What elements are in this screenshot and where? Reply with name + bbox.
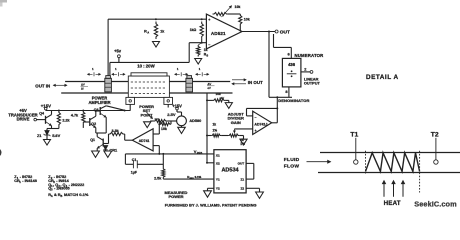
svg-text:DRIVE: DRIVE <box>17 117 30 122</box>
svg-text:1k: 1k <box>213 122 217 126</box>
svg-text:3.3k: 3.3k <box>112 129 120 133</box>
svg-text:Q1: Q1 <box>90 138 95 142</box>
svg-text:10k: 10k <box>244 18 250 22</box>
svg-text:FLOW: FLOW <box>284 163 300 169</box>
svg-text:−: − <box>255 115 257 119</box>
svg-text:1%: 1% <box>213 128 218 132</box>
svg-text:4.7k: 4.7k <box>71 114 79 118</box>
svg-text:X1: X1 <box>216 153 220 157</box>
svg-text:SeekIC.com: SeekIC.com <box>414 200 457 209</box>
svg-text:HEAT: HEAT <box>384 200 401 207</box>
svg-text:Q4: Q4 <box>39 112 44 116</box>
svg-text:Y1: Y1 <box>216 177 220 181</box>
svg-text:- 2N3055: - 2N3055 <box>54 186 70 190</box>
svg-text:A: A <box>147 32 149 35</box>
svg-text:DETAIL A: DETAIL A <box>366 74 399 81</box>
svg-text:1%: 1% <box>240 142 245 146</box>
svg-text:OUT IN: OUT IN <box>35 83 50 88</box>
svg-text:AD741: AD741 <box>139 139 150 143</box>
svg-text:FURNISHED BY J. WILLIAMS. PA: FURNISHED BY J. WILLIAMS. PATENT PENDING <box>165 204 257 208</box>
svg-text:436: 436 <box>288 62 296 67</box>
svg-text:+: + <box>208 18 210 22</box>
svg-text:10k: 10k <box>235 5 241 9</box>
svg-text:POINT: POINT <box>141 112 154 117</box>
svg-text:T1: T1 <box>350 132 358 139</box>
svg-text:ΔV: ΔV <box>208 82 212 86</box>
svg-text:0.1%: 0.1% <box>195 175 202 179</box>
svg-text:FLUID: FLUID <box>284 157 300 163</box>
svg-text:T2: T2 <box>431 132 439 139</box>
svg-text:ΔV: ΔV <box>81 83 85 87</box>
svg-text:αV: αV <box>208 86 211 90</box>
svg-text:+5v: +5v <box>114 49 122 54</box>
svg-text:Q2: Q2 <box>91 122 96 126</box>
svg-text:Y2: Y2 <box>216 187 220 191</box>
svg-text:2.5V: 2.5V <box>167 112 176 117</box>
svg-text:1k: 1k <box>160 30 164 34</box>
svg-text:αΔV: αΔV <box>220 97 225 100</box>
svg-text:OUT: OUT <box>280 30 290 36</box>
svg-text:10 : 20W: 10 : 20W <box>137 64 155 69</box>
svg-text:DENOMINATOR: DENOMINATOR <box>278 98 309 103</box>
svg-text:A: A <box>51 195 53 198</box>
svg-text:AD534: AD534 <box>221 168 239 174</box>
svg-text:AD580: AD580 <box>189 119 201 123</box>
svg-text:B: B <box>61 195 63 198</box>
svg-text:ΔI: ΔI <box>81 86 84 90</box>
svg-text:1μF: 1μF <box>131 171 138 175</box>
svg-text:POWER: POWER <box>168 194 183 199</box>
svg-text:- IN4148: - IN4148 <box>22 179 37 183</box>
svg-text:Z1: Z1 <box>240 177 244 181</box>
svg-text:CR1: CR1 <box>109 147 118 152</box>
svg-text:10k: 10k <box>161 127 167 131</box>
svg-text:−: − <box>208 43 210 47</box>
svg-text:1kΩ: 1kΩ <box>190 28 197 32</box>
svg-text:AD521: AD521 <box>211 31 226 36</box>
svg-text:2.2k: 2.2k <box>62 119 70 123</box>
svg-text:AD741J: AD741J <box>254 123 267 127</box>
svg-text:IN OUT: IN OUT <box>248 80 263 85</box>
svg-text:+15V: +15V <box>172 103 182 108</box>
svg-text:OUT: OUT <box>238 162 245 166</box>
svg-text:RES: RES <box>197 151 203 155</box>
svg-text:+: + <box>255 129 257 133</box>
svg-text:- 2N2222: - 2N2222 <box>69 183 85 187</box>
svg-text:Q3: Q3 <box>94 108 99 112</box>
svg-text:OUTPUT: OUTPUT <box>304 81 321 86</box>
svg-text:Z2: Z2 <box>240 187 244 191</box>
svg-text:AMPLIFIER: AMPLIFIER <box>88 100 110 105</box>
svg-text:2.5k: 2.5k <box>154 177 162 181</box>
svg-text:5.6V: 5.6V <box>52 133 60 138</box>
svg-text:C1: C1 <box>132 158 137 162</box>
svg-text:GAIN: GAIN <box>231 120 241 125</box>
svg-text:X2: X2 <box>216 162 220 166</box>
svg-text:NUMERATOR: NUMERATOR <box>295 53 325 58</box>
svg-text:MATCH 0.1%: MATCH 0.1% <box>64 192 89 197</box>
